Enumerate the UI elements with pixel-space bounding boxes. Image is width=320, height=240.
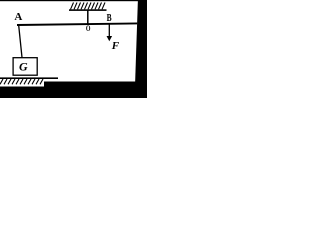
svg-text:O: O <box>86 24 91 33</box>
support link O to ceiling <box>87 11 89 25</box>
beam A-O-B <box>17 23 137 25</box>
string from A to block <box>19 25 22 58</box>
svg-text:F: F <box>111 40 120 52</box>
block G <box>13 58 37 75</box>
svg-text:A: A <box>14 11 22 23</box>
force F arrow shaft <box>108 25 110 38</box>
ground hatching <box>0 79 43 84</box>
right scan border bar <box>135 0 147 98</box>
ceiling hatching <box>71 3 106 10</box>
bottom scan border band <box>0 82 147 99</box>
background <box>0 0 147 98</box>
svg-text:G: G <box>19 59 28 73</box>
svg-text:B: B <box>107 12 112 24</box>
ceiling line <box>69 9 107 11</box>
ground line <box>0 77 58 79</box>
top scan border line <box>0 0 139 1</box>
force F arrowhead <box>107 36 113 41</box>
